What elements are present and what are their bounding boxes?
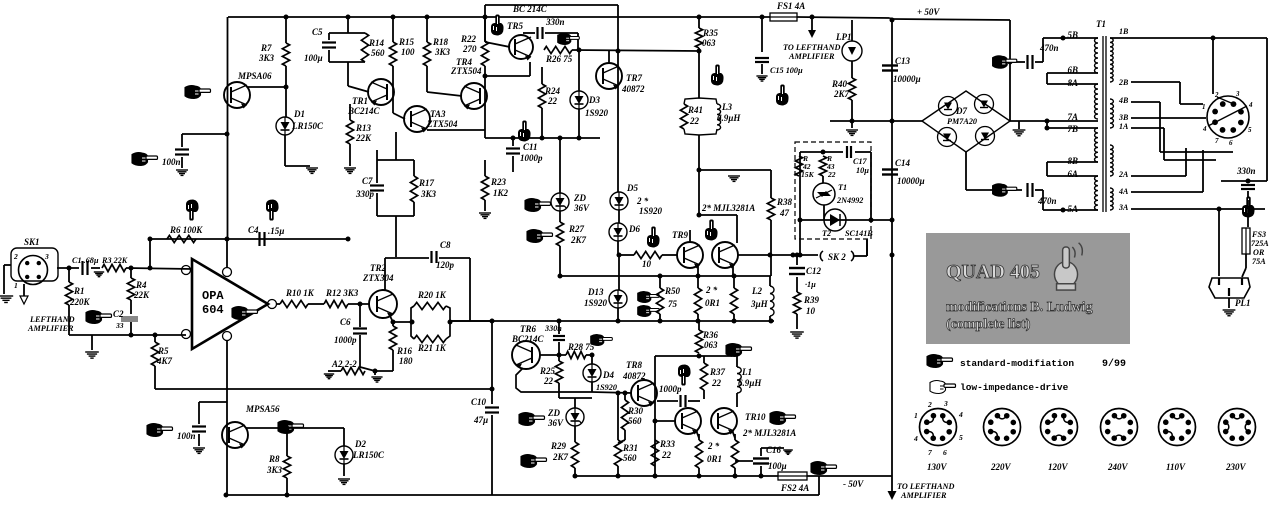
svg-text:·1µ: ·1µ bbox=[805, 280, 816, 289]
svg-text:5: 5 bbox=[1248, 126, 1252, 134]
svg-text:AMPLIFIER: AMPLIFIER bbox=[788, 52, 835, 61]
svg-text:5A: 5A bbox=[1067, 204, 1078, 214]
svg-text:2: 2 bbox=[1214, 91, 1219, 99]
svg-text:AMPLIFIER: AMPLIFIER bbox=[900, 491, 947, 500]
svg-text:725A: 725A bbox=[1251, 239, 1269, 248]
svg-text:FS3: FS3 bbox=[1251, 230, 1266, 239]
svg-text:063: 063 bbox=[702, 38, 716, 48]
svg-text:22K: 22K bbox=[355, 133, 372, 143]
svg-text:2A: 2A bbox=[1118, 170, 1129, 179]
svg-text:TO LEFTHAND: TO LEFTHAND bbox=[897, 482, 954, 491]
svg-text:BC214C: BC214C bbox=[511, 334, 545, 344]
svg-text:2 *: 2 * bbox=[705, 285, 718, 295]
svg-text:R1: R1 bbox=[73, 286, 85, 296]
svg-text:D3: D3 bbox=[588, 95, 600, 105]
svg-text:R16: R16 bbox=[396, 346, 413, 356]
svg-text:1: 1 bbox=[1202, 103, 1206, 111]
svg-text:C10: C10 bbox=[471, 397, 487, 407]
svg-text:R14: R14 bbox=[368, 38, 385, 48]
svg-text:470n: 470n bbox=[1037, 196, 1057, 206]
svg-text:1S920: 1S920 bbox=[596, 383, 617, 392]
svg-text:R5: R5 bbox=[157, 346, 169, 356]
svg-text:4: 4 bbox=[1202, 125, 1207, 133]
svg-text:TR1: TR1 bbox=[352, 96, 368, 106]
svg-text:330n: 330n bbox=[1236, 166, 1256, 176]
svg-text:1000p: 1000p bbox=[334, 335, 357, 345]
svg-text:0R1: 0R1 bbox=[705, 298, 720, 308]
svg-text:R23: R23 bbox=[490, 177, 507, 187]
svg-text:3µH: 3µH bbox=[750, 299, 769, 309]
svg-text:330p: 330p bbox=[355, 189, 375, 199]
svg-text:220K: 220K bbox=[69, 297, 91, 307]
svg-text:R6 100K: R6 100K bbox=[169, 225, 203, 235]
svg-text:220V: 220V bbox=[990, 462, 1012, 472]
svg-text:LR150C: LR150C bbox=[352, 450, 385, 460]
svg-text:120V: 120V bbox=[1048, 462, 1069, 472]
svg-text:75A: 75A bbox=[1252, 257, 1266, 266]
svg-text:R17: R17 bbox=[418, 178, 435, 188]
svg-text:R27: R27 bbox=[568, 224, 585, 234]
svg-text:1: 1 bbox=[14, 281, 18, 290]
svg-text:270: 270 bbox=[462, 44, 477, 54]
svg-text:C11: C11 bbox=[523, 142, 538, 152]
svg-text:36V: 36V bbox=[547, 418, 564, 428]
svg-text:R13: R13 bbox=[355, 123, 372, 133]
svg-text:R29: R29 bbox=[550, 441, 567, 451]
svg-text:FS2 4A: FS2 4A bbox=[780, 483, 809, 493]
svg-text:4: 4 bbox=[958, 410, 963, 419]
svg-text:180: 180 bbox=[399, 356, 413, 366]
svg-text:BC 214C: BC 214C bbox=[512, 4, 548, 14]
svg-text:C16: C16 bbox=[766, 445, 782, 455]
svg-text:22K: 22K bbox=[133, 290, 150, 300]
svg-text:L3: L3 bbox=[721, 102, 732, 112]
svg-text:47µ: 47µ bbox=[473, 415, 488, 425]
svg-text:D7: D7 bbox=[955, 106, 967, 116]
svg-text:3A: 3A bbox=[1118, 203, 1129, 212]
svg-text:1000p: 1000p bbox=[520, 153, 543, 163]
svg-text:BC214C: BC214C bbox=[347, 106, 381, 116]
svg-text:C2: C2 bbox=[113, 309, 124, 319]
svg-text:L1: L1 bbox=[741, 367, 752, 377]
svg-text:470n: 470n bbox=[1039, 43, 1059, 53]
svg-text:ZTX504: ZTX504 bbox=[426, 119, 458, 129]
svg-text:3B: 3B bbox=[1118, 113, 1129, 122]
svg-text:1000p: 1000p bbox=[659, 384, 682, 394]
svg-text:R10 1K: R10 1K bbox=[285, 288, 315, 298]
svg-text:PL1: PL1 bbox=[1235, 298, 1251, 308]
svg-text:22: 22 bbox=[711, 378, 722, 388]
svg-text:4A: 4A bbox=[1118, 187, 1129, 196]
svg-text:2K7: 2K7 bbox=[570, 235, 587, 245]
svg-text:.15µ: .15µ bbox=[268, 226, 284, 236]
svg-text:130V: 130V bbox=[927, 462, 948, 472]
svg-text:10000µ: 10000µ bbox=[893, 74, 921, 84]
svg-text:D5: D5 bbox=[626, 183, 638, 193]
svg-text:ZD: ZD bbox=[547, 408, 560, 418]
svg-text:3: 3 bbox=[943, 399, 948, 408]
svg-text:1K2: 1K2 bbox=[493, 188, 509, 198]
svg-text:40872: 40872 bbox=[622, 371, 646, 381]
svg-text:A2 2-2: A2 2-2 bbox=[331, 359, 357, 369]
svg-text:C7: C7 bbox=[362, 176, 373, 186]
svg-text:100n: 100n bbox=[177, 431, 196, 441]
svg-text:C4: C4 bbox=[248, 225, 259, 235]
svg-text:2N4992: 2N4992 bbox=[836, 196, 863, 205]
svg-text:10: 10 bbox=[806, 306, 816, 316]
svg-text:R8: R8 bbox=[268, 454, 280, 464]
svg-text:R21 1K: R21 1K bbox=[417, 343, 447, 353]
svg-text:TR7: TR7 bbox=[626, 73, 643, 83]
svg-text:C15 100µ: C15 100µ bbox=[770, 66, 803, 75]
svg-text:TR8: TR8 bbox=[626, 360, 643, 370]
svg-text:8B: 8B bbox=[1067, 156, 1078, 166]
svg-text:1: 1 bbox=[914, 411, 918, 420]
svg-text:T2: T2 bbox=[822, 229, 831, 238]
svg-text:PM7A20: PM7A20 bbox=[947, 117, 977, 126]
svg-text:R24: R24 bbox=[544, 86, 561, 96]
svg-text:240V: 240V bbox=[1107, 462, 1129, 472]
svg-text:SK1: SK1 bbox=[24, 237, 40, 247]
svg-text:2 *: 2 * bbox=[636, 196, 649, 206]
svg-text:9/99: 9/99 bbox=[1102, 358, 1126, 370]
svg-text:22: 22 bbox=[661, 450, 672, 460]
svg-text:560: 560 bbox=[623, 453, 637, 463]
svg-text:R50: R50 bbox=[664, 286, 681, 296]
svg-text:100µ: 100µ bbox=[304, 53, 323, 63]
svg-text:10000µ: 10000µ bbox=[897, 176, 925, 186]
svg-text:2K7: 2K7 bbox=[833, 89, 850, 99]
svg-text:R26 75: R26 75 bbox=[545, 54, 573, 64]
svg-text:low-impedance-drive: low-impedance-drive bbox=[960, 382, 1069, 393]
svg-text:TO LEFTHAND: TO LEFTHAND bbox=[783, 43, 840, 52]
svg-text:560: 560 bbox=[628, 416, 642, 426]
svg-text:36V: 36V bbox=[573, 203, 590, 213]
svg-text:R39: R39 bbox=[803, 295, 820, 305]
svg-text:8A: 8A bbox=[1067, 78, 1078, 88]
svg-text:C12: C12 bbox=[806, 266, 822, 276]
svg-text:TR9: TR9 bbox=[672, 230, 689, 240]
svg-text:4: 4 bbox=[1248, 101, 1253, 109]
svg-text:ZTX304: ZTX304 bbox=[362, 273, 394, 283]
svg-text:7A: 7A bbox=[1067, 112, 1078, 122]
svg-text:4: 4 bbox=[913, 434, 918, 443]
svg-text:2B: 2B bbox=[1118, 78, 1129, 87]
svg-text:MPSA56: MPSA56 bbox=[245, 404, 280, 414]
svg-text:4K7: 4K7 bbox=[156, 356, 173, 366]
svg-text:2: 2 bbox=[13, 252, 18, 261]
svg-text:T1: T1 bbox=[1096, 19, 1106, 29]
svg-text:standard-modifiation: standard-modifiation bbox=[960, 358, 1074, 369]
svg-text:47: 47 bbox=[779, 208, 790, 218]
svg-text:3K3: 3K3 bbox=[434, 47, 451, 57]
svg-text:QUAD 405: QUAD 405 bbox=[946, 261, 1040, 283]
svg-text:+ 50V: + 50V bbox=[917, 7, 940, 17]
svg-text:T1: T1 bbox=[838, 183, 847, 192]
svg-text:230V: 230V bbox=[1225, 462, 1247, 472]
svg-text:R35: R35 bbox=[702, 28, 719, 38]
svg-text:C8: C8 bbox=[440, 240, 451, 250]
svg-text:2* MJL3281A: 2* MJL3281A bbox=[742, 428, 796, 438]
svg-text:100n: 100n bbox=[162, 157, 181, 167]
svg-text:R25: R25 bbox=[539, 366, 556, 376]
svg-text:ZTX504: ZTX504 bbox=[450, 66, 482, 76]
svg-text:22: 22 bbox=[827, 170, 836, 179]
svg-text:15K: 15K bbox=[801, 170, 815, 179]
svg-text:R12 3K3: R12 3K3 bbox=[325, 288, 359, 298]
svg-text:D13: D13 bbox=[587, 287, 604, 297]
svg-text:R36: R36 bbox=[702, 330, 719, 340]
svg-text:C17: C17 bbox=[853, 157, 868, 166]
svg-text:1A: 1A bbox=[1119, 122, 1129, 131]
svg-text:6: 6 bbox=[943, 448, 947, 457]
svg-text:22: 22 bbox=[689, 116, 700, 126]
svg-text:330n: 330n bbox=[545, 17, 565, 27]
svg-text:2* MJL3281A: 2* MJL3281A bbox=[701, 203, 755, 213]
svg-text:6.9µH: 6.9µH bbox=[738, 378, 762, 388]
svg-text:3K3: 3K3 bbox=[266, 465, 283, 475]
svg-text:100µ: 100µ bbox=[768, 461, 787, 471]
svg-text:1S920: 1S920 bbox=[584, 298, 608, 308]
svg-text:D2: D2 bbox=[354, 439, 366, 449]
svg-text:R40: R40 bbox=[831, 79, 848, 89]
svg-text:C13: C13 bbox=[895, 56, 911, 66]
svg-text:C6: C6 bbox=[340, 317, 351, 327]
svg-text:4B: 4B bbox=[1118, 96, 1129, 105]
svg-text:R30: R30 bbox=[627, 406, 644, 416]
svg-text:10: 10 bbox=[642, 259, 652, 269]
svg-text:TA3: TA3 bbox=[430, 109, 446, 119]
svg-text:FS1 4A: FS1 4A bbox=[776, 1, 805, 11]
svg-text:SK 2: SK 2 bbox=[828, 252, 846, 262]
svg-text:LR150C: LR150C bbox=[291, 121, 324, 131]
svg-text:3: 3 bbox=[44, 252, 49, 261]
svg-text:33: 33 bbox=[115, 321, 124, 330]
svg-text:C5: C5 bbox=[312, 27, 323, 37]
svg-text:22: 22 bbox=[543, 376, 554, 386]
svg-text:L2: L2 bbox=[751, 286, 762, 296]
svg-text:MPSA06: MPSA06 bbox=[237, 71, 272, 81]
svg-text:SC141B: SC141B bbox=[845, 229, 873, 238]
svg-text:OPA: OPA bbox=[202, 289, 224, 303]
svg-text:1B: 1B bbox=[1119, 27, 1129, 36]
svg-text:TR6: TR6 bbox=[520, 324, 537, 334]
svg-text:modifications B. Ludwig: modifications B. Ludwig bbox=[946, 300, 1093, 315]
svg-text:D1: D1 bbox=[293, 109, 305, 119]
svg-text:R28 75: R28 75 bbox=[567, 342, 595, 352]
svg-text:1S920: 1S920 bbox=[639, 206, 663, 216]
svg-text:5: 5 bbox=[959, 433, 963, 442]
svg-text:10µ: 10µ bbox=[856, 166, 869, 175]
svg-text:LEFTHAND: LEFTHAND bbox=[29, 315, 75, 324]
svg-text:TR10: TR10 bbox=[745, 412, 766, 422]
svg-text:3: 3 bbox=[1235, 90, 1240, 98]
svg-text:ZD: ZD bbox=[573, 193, 586, 203]
svg-text:40872: 40872 bbox=[621, 84, 645, 94]
svg-text:C14: C14 bbox=[895, 158, 911, 168]
svg-text:6.9µH: 6.9µH bbox=[717, 113, 741, 123]
svg-text:2 *: 2 * bbox=[707, 441, 720, 451]
svg-text:604: 604 bbox=[202, 303, 224, 317]
svg-text:R4: R4 bbox=[135, 280, 147, 290]
svg-text:R37: R37 bbox=[709, 367, 726, 377]
svg-text:OR: OR bbox=[1253, 248, 1265, 257]
svg-text:110V: 110V bbox=[1166, 462, 1186, 472]
svg-text:063: 063 bbox=[704, 340, 718, 350]
svg-text:R33: R33 bbox=[659, 439, 676, 449]
svg-text:2: 2 bbox=[927, 400, 932, 409]
svg-text:R38: R38 bbox=[776, 197, 793, 207]
svg-text:AMPLIFIER: AMPLIFIER bbox=[27, 324, 74, 333]
svg-text:D4: D4 bbox=[602, 370, 614, 380]
svg-text:(complete list): (complete list) bbox=[946, 317, 1031, 332]
svg-text:5B: 5B bbox=[1067, 30, 1078, 40]
svg-text:2K7: 2K7 bbox=[552, 452, 569, 462]
svg-text:560: 560 bbox=[371, 48, 385, 58]
svg-text:R41: R41 bbox=[687, 105, 703, 115]
svg-text:7: 7 bbox=[1215, 137, 1219, 145]
svg-text:LP1: LP1 bbox=[835, 32, 852, 42]
svg-text:75: 75 bbox=[668, 299, 678, 309]
svg-text:- 50V: - 50V bbox=[843, 479, 864, 489]
svg-text:3K3: 3K3 bbox=[420, 189, 437, 199]
svg-text:C1 .68µ: C1 .68µ bbox=[72, 256, 99, 265]
svg-text:TR2: TR2 bbox=[370, 263, 387, 273]
svg-text:100: 100 bbox=[401, 47, 415, 57]
svg-text:1S920: 1S920 bbox=[585, 108, 609, 118]
svg-text:7B: 7B bbox=[1067, 124, 1078, 134]
svg-text:3K3: 3K3 bbox=[258, 53, 275, 63]
svg-text:0R1: 0R1 bbox=[707, 454, 722, 464]
svg-text:R22: R22 bbox=[460, 34, 477, 44]
svg-text:6A: 6A bbox=[1067, 169, 1078, 179]
svg-text:R7: R7 bbox=[260, 43, 272, 53]
svg-text:120p: 120p bbox=[436, 260, 455, 270]
svg-text:22: 22 bbox=[547, 96, 558, 106]
svg-text:TR5: TR5 bbox=[507, 21, 524, 31]
svg-text:R31: R31 bbox=[622, 443, 638, 453]
svg-text:R18: R18 bbox=[432, 37, 449, 47]
svg-text:D6: D6 bbox=[628, 224, 640, 234]
svg-text:R3 22K: R3 22K bbox=[101, 256, 128, 265]
svg-text:R20 1K: R20 1K bbox=[417, 290, 447, 300]
svg-text:6: 6 bbox=[1229, 139, 1233, 147]
svg-text:R15: R15 bbox=[398, 37, 415, 47]
